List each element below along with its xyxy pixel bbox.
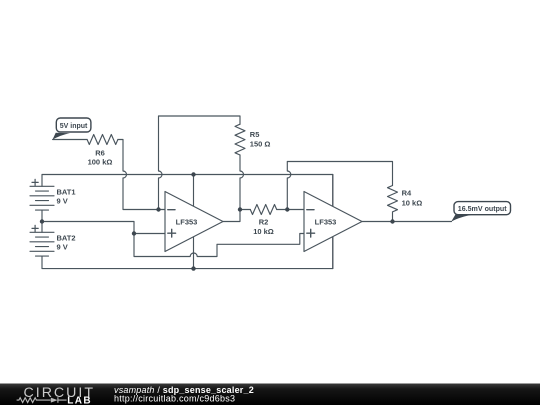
node C: U2 inverting input (285, 207, 289, 211)
svg-text:5V input: 5V input (60, 123, 88, 130)
node U2 output / R4 (390, 219, 394, 223)
op-amp U2 power pins (332, 175, 334, 269)
wire R6 to op-amp U1 inverting input (crosses +9V rail with hop) (118, 140, 165, 210)
wire feedback loop U1: node A up and over to R5 (159, 116, 241, 210)
resistor R6 (87, 135, 118, 145)
svg-text:BAT1: BAT1 (57, 187, 76, 196)
flag 5V input (52, 118, 90, 140)
svg-text:http://circuitlab.com/c9d6bs3: http://circuitlab.com/c9d6bs3 (114, 394, 235, 404)
svg-text:9 V: 9 V (57, 196, 68, 205)
svg-text:9 V: 9 V (57, 242, 68, 251)
resistor R4 (388, 186, 398, 212)
node A: U1 inverting input (156, 207, 160, 211)
op-amp U1 power pins (193, 175, 195, 269)
svg-text:BAT2: BAT2 (57, 233, 76, 242)
node battery midpoint (40, 219, 44, 223)
flag 16.5mV output (451, 202, 510, 222)
resistor R2 (250, 205, 276, 215)
op-amp U1 (165, 192, 223, 252)
footer bar (0, 384, 540, 405)
wire node to R2 (240, 209, 250, 211)
svg-text:10 kΩ: 10 kΩ (402, 199, 423, 208)
svg-text:LF353: LF353 (176, 217, 198, 226)
svg-text:LAB: LAB (67, 396, 92, 405)
battery BAT2 (30, 222, 54, 257)
wire -9V rail from BAT2 bottom to op-amp U2 bottom power pin (42, 237, 333, 269)
resistor R5 (235, 124, 245, 155)
wire R5 bottom to U1 output node (hop over rail) (240, 155, 244, 210)
svg-text:R6: R6 (95, 148, 105, 157)
svg-text:R5: R5 (250, 130, 260, 139)
wire U2 output to flag (362, 221, 452, 223)
wire node B down and across to U2 non-inverting input (hops U1 bottom power pin) (134, 234, 304, 257)
svg-text:10 kΩ: 10 kΩ (253, 227, 274, 236)
op-amp U2 (304, 192, 362, 252)
svg-text:100 kΩ: 100 kΩ (88, 157, 113, 166)
svg-text:R2: R2 (259, 217, 269, 226)
node U1 output (238, 207, 242, 211)
wire input from flag to R6 (53, 139, 88, 141)
wire R4 bottom to output node (392, 212, 394, 222)
svg-text:16.5mV output: 16.5mV output (458, 205, 508, 213)
battery BAT1 (30, 179, 54, 221)
svg-text:150 Ω: 150 Ω (250, 139, 271, 148)
wire +9V rail from BAT1 top to op-amp U2 top power pin (42, 175, 333, 207)
component labels (57, 130, 423, 251)
wire U1 output to node (223, 210, 240, 222)
node U1 V+ on rail (191, 172, 195, 176)
wire feedback loop U2: node C up and over to R4 (hop over rail) (287, 162, 392, 210)
wire battery midpoint to op-amp inputs (42, 222, 165, 234)
node U1 V- on bottom rail (191, 266, 195, 270)
svg-text:R4: R4 (402, 188, 412, 197)
svg-text:LF353: LF353 (315, 217, 337, 226)
node U1 +in branch (132, 231, 136, 235)
logo schematic doodle: resistor + diode (17, 397, 67, 403)
wire R2 to U2 inverting input (277, 209, 304, 211)
junction dots (40, 172, 395, 270)
